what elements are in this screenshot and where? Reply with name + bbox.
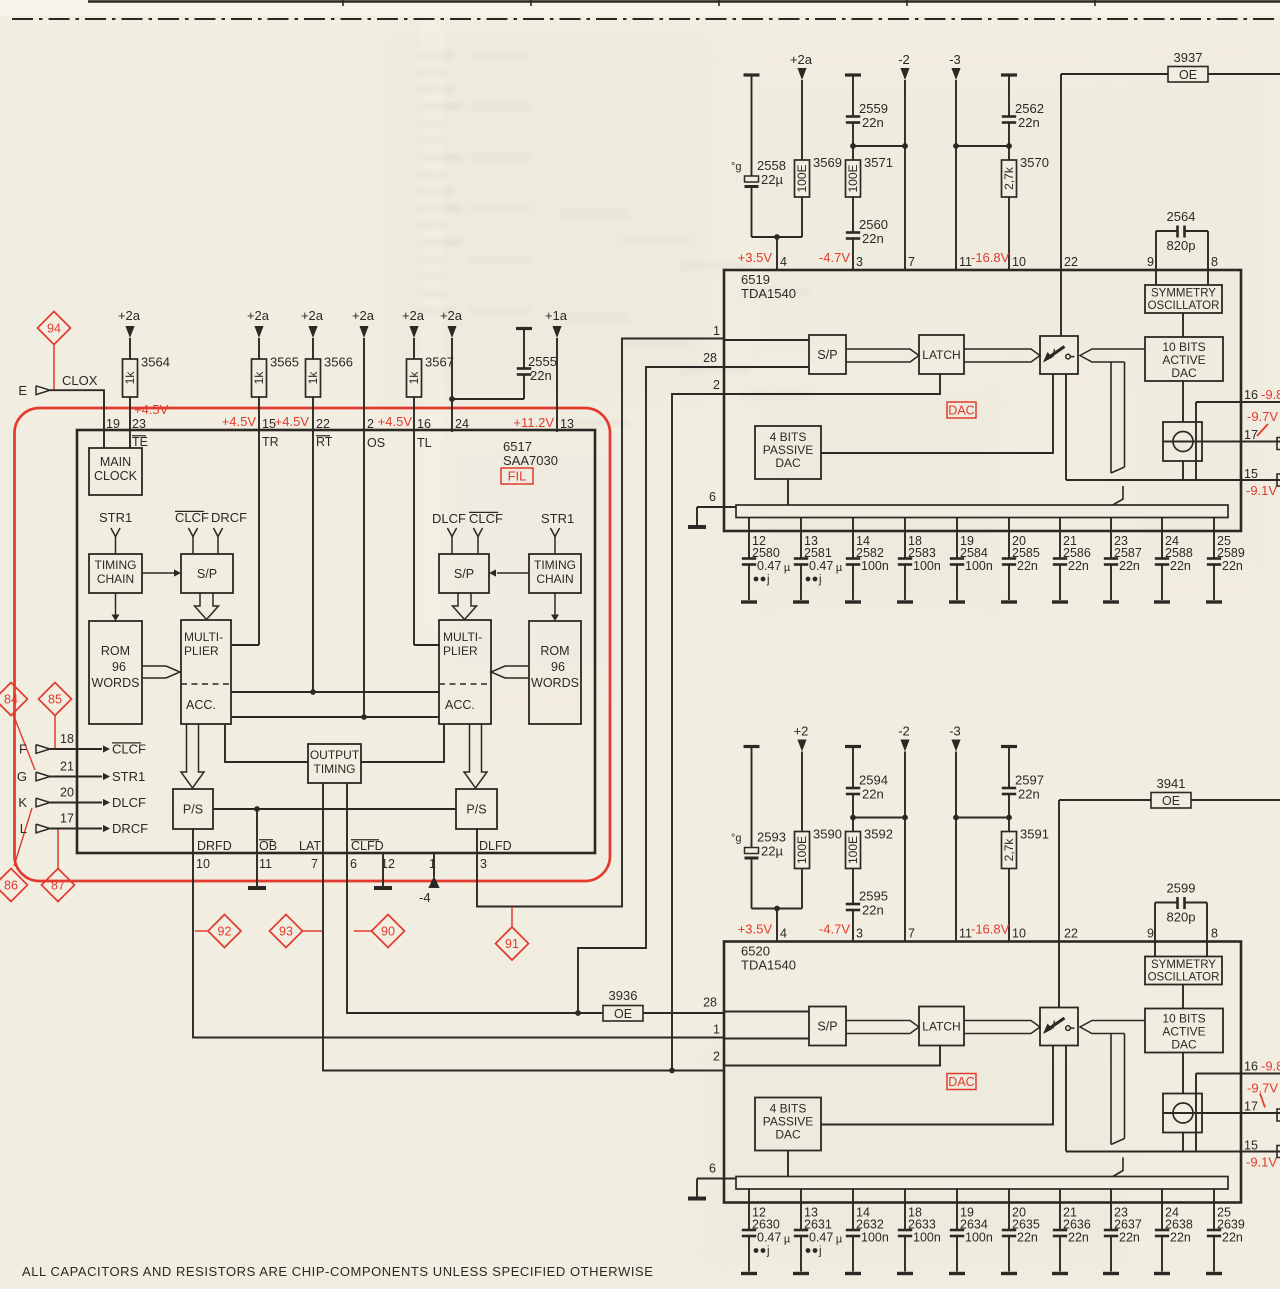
- svg-text:17: 17: [60, 812, 74, 826]
- connector stubs right edge: [1277, 1109, 1280, 1121]
- svg-text:22n: 22n: [1068, 1231, 1089, 1245]
- svg-text:DAC: DAC: [775, 456, 801, 470]
- block 4 BITS PASSIVE DAC: [755, 426, 821, 479]
- svg-text:2639: 2639: [1217, 1218, 1245, 1232]
- svg-text:-9.7V: -9.7V: [1247, 409, 1278, 424]
- svg-text:ROM: ROM: [540, 644, 569, 658]
- svg-text:3941: 3941: [1157, 776, 1186, 791]
- capacitor C2635 22n: [1008, 1189, 1010, 1230]
- svg-text:22n: 22n: [1119, 1231, 1140, 1245]
- svg-text:17: 17: [1244, 428, 1258, 442]
- bus bundle lines: [1110, 362, 1112, 473]
- block ROM 96 WORDS left: [89, 621, 142, 724]
- svg-text:P/S: P/S: [183, 803, 203, 817]
- capacitor C2589 22n: [1213, 518, 1215, 559]
- svg-text:TE: TE: [132, 435, 148, 449]
- resistor R3571 100E: [846, 160, 861, 197]
- bus arrow ROM to multiplier right: [491, 666, 529, 678]
- capacitor C2638 22n: [1161, 1189, 1163, 1230]
- svg-text:3937: 3937: [1174, 50, 1203, 65]
- wire pin a to S/P: [724, 339, 809, 341]
- svg-text:MAIN: MAIN: [100, 455, 131, 469]
- svg-text:2583: 2583: [908, 546, 936, 560]
- block TIMING CHAIN right: [529, 554, 581, 593]
- svg-text:22n: 22n: [862, 903, 884, 918]
- wire pin 22 RT: [312, 397, 314, 692]
- svg-text:j: j: [766, 574, 770, 586]
- svg-text:24: 24: [455, 417, 469, 431]
- supply +2: [797, 740, 806, 752]
- svg-text:2637: 2637: [1114, 1218, 1142, 1232]
- svg-text:22n: 22n: [530, 368, 552, 383]
- svg-text:j: j: [818, 574, 822, 586]
- svg-text:OS: OS: [367, 436, 385, 450]
- resistor R3564 1k: [129, 338, 131, 359]
- svg-text:3: 3: [480, 857, 487, 871]
- arrow timing chain to S/P: [142, 572, 174, 574]
- supply terminal 2593: [744, 745, 760, 748]
- svg-text:+2a: +2a: [440, 308, 463, 323]
- wire pin 23: [129, 397, 131, 448]
- capacitor C2637 22n: [1110, 1189, 1112, 1230]
- wire sym osc to DAC: [1182, 985, 1184, 1009]
- svg-text:100n: 100n: [913, 559, 941, 573]
- capacitor C2583 100n: [904, 518, 906, 559]
- supply terminal 2594: [845, 745, 861, 748]
- svg-text:DRCF: DRCF: [112, 821, 148, 836]
- svg-text:22n: 22n: [862, 115, 884, 130]
- wire pin 9 to sym osc: [1154, 942, 1156, 957]
- wire red stem 84: [13, 714, 35, 770]
- svg-text:21: 21: [60, 760, 74, 774]
- svg-text:22n: 22n: [1018, 787, 1040, 802]
- svg-text:CLFD: CLFD: [351, 839, 384, 853]
- capacitor C2581 0.47: [800, 518, 802, 559]
- svg-text:3566: 3566: [324, 355, 353, 370]
- svg-text:MULTI-: MULTI-: [184, 630, 223, 644]
- wire pin 15 rail: [1066, 479, 1280, 481]
- svg-text:22n: 22n: [1018, 115, 1040, 130]
- svg-text:1k: 1k: [252, 371, 266, 385]
- wire pin 13: [556, 338, 558, 432]
- svg-text:9: 9: [1147, 255, 1154, 269]
- svg-text:CHAIN: CHAIN: [536, 572, 573, 586]
- svg-text:OE: OE: [1179, 68, 1197, 82]
- connector diamond 86: [0, 869, 28, 902]
- svg-text:22µ: 22µ: [761, 844, 783, 859]
- capacitor C2630 0.47: [748, 1189, 750, 1230]
- svg-text:100E: 100E: [846, 164, 860, 192]
- svg-text:OUTPUT: OUTPUT: [310, 748, 360, 762]
- svg-text:ACTIVE: ACTIVE: [1162, 353, 1205, 367]
- svg-text:S/P: S/P: [817, 1020, 837, 1034]
- current source block: [1163, 1094, 1202, 1133]
- svg-text:2586: 2586: [1063, 546, 1091, 560]
- svg-text:2633: 2633: [908, 1218, 936, 1232]
- svg-text:2585: 2585: [1012, 546, 1040, 560]
- capacitor C2582 100n: [852, 518, 854, 559]
- switch block: [1040, 336, 1078, 374]
- capacitor C2636 22n: [1059, 1189, 1061, 1230]
- bus arrow S/P to LATCH: [846, 349, 919, 362]
- svg-text:DRFD: DRFD: [197, 839, 232, 853]
- svg-text:100E: 100E: [795, 164, 809, 192]
- wire pin a to S/P: [724, 1011, 809, 1013]
- capacitor C2562 22n: [1008, 75, 1010, 116]
- svg-text:90: 90: [381, 925, 395, 939]
- svg-text:3565: 3565: [270, 355, 299, 370]
- bus arrow DAC to switch: [1080, 1021, 1145, 1034]
- svg-text:2562: 2562: [1015, 101, 1044, 116]
- supply terminal 2562: [1001, 73, 1017, 76]
- current source block: [1163, 422, 1202, 461]
- wire pin 7: [904, 752, 906, 942]
- ground pin 12: [382, 853, 384, 886]
- svg-text:DAC: DAC: [775, 1128, 801, 1142]
- capacitor C2633 100n: [904, 1189, 906, 1230]
- bus bar: [736, 505, 1228, 518]
- wire pin 10: [1008, 197, 1010, 270]
- wire OE to 6520 pin 28: [643, 1012, 724, 1014]
- resistor R3937 0E: [1061, 73, 1168, 75]
- supply terminal 2558: [744, 73, 760, 76]
- svg-text:18: 18: [60, 732, 74, 746]
- supply +2a: [125, 326, 134, 338]
- capacitor C2580 0.47: [748, 518, 750, 559]
- svg-text:22n: 22n: [1017, 559, 1038, 573]
- svg-text:23: 23: [132, 417, 146, 431]
- block MULTIPLIER ACC right: [439, 620, 491, 724]
- bus arrow ACC to P/S right: [464, 724, 487, 788]
- capacitor C2631 0.47: [800, 1189, 802, 1230]
- svg-text:2587: 2587: [1114, 546, 1142, 560]
- svg-text:3571: 3571: [864, 155, 893, 170]
- svg-text:2595: 2595: [859, 889, 888, 904]
- connector diamond 87: [42, 869, 75, 902]
- svg-text:µ: µ: [836, 1234, 843, 1246]
- supply -3: [951, 740, 960, 752]
- top dash-dot phantom line: [12, 18, 1280, 20]
- connector diamond 90: [372, 915, 405, 948]
- arrow timing chain right to S/P: [497, 572, 529, 574]
- svg-text:j: j: [818, 1246, 822, 1258]
- svg-text:3590: 3590: [813, 827, 842, 842]
- svg-text:PLIER: PLIER: [443, 644, 478, 658]
- svg-text:+2a: +2a: [118, 308, 141, 323]
- svg-text:2594: 2594: [859, 773, 888, 788]
- svg-text:+11.2V: +11.2V: [513, 415, 554, 430]
- svg-text:6: 6: [709, 1162, 716, 1176]
- bus arrow LATCH to switch: [964, 349, 1040, 362]
- wire pin 17: [1163, 1112, 1280, 1114]
- svg-text:°g: °g: [731, 161, 742, 173]
- svg-text:15: 15: [1244, 467, 1258, 481]
- wire P/S left DRFD: [192, 829, 194, 853]
- svg-text:2632: 2632: [856, 1218, 884, 1232]
- svg-text:100n: 100n: [861, 1231, 889, 1245]
- svg-text:100n: 100n: [965, 1231, 993, 1245]
- svg-text:TL: TL: [417, 436, 432, 450]
- capacitor C2632 100n: [852, 1189, 854, 1230]
- svg-text:100n: 100n: [965, 559, 993, 573]
- resistor R3569 100E: [801, 80, 803, 160]
- svg-text:-2: -2: [898, 724, 910, 739]
- svg-text:22n: 22n: [1119, 559, 1140, 573]
- svg-text:1: 1: [429, 857, 436, 871]
- svg-text:-9.8: -9.8: [1261, 387, 1280, 402]
- svg-text:1k: 1k: [407, 371, 421, 385]
- wire pin 24: [451, 338, 453, 432]
- wire P/S right DLFD: [476, 829, 478, 853]
- svg-text:+4.5V: +4.5V: [275, 414, 310, 429]
- svg-text:19: 19: [106, 417, 120, 431]
- svg-text:+4.5V: +4.5V: [134, 402, 169, 417]
- svg-text:ACC.: ACC.: [186, 698, 216, 712]
- svg-text:2599: 2599: [1167, 881, 1196, 896]
- svg-text:DLCF: DLCF: [112, 795, 146, 810]
- svg-text:-16.8V: -16.8V: [971, 250, 1010, 265]
- svg-text:+4.5V: +4.5V: [222, 414, 257, 429]
- svg-text:96: 96: [112, 660, 126, 674]
- svg-text:8: 8: [1211, 927, 1218, 941]
- svg-text:2589: 2589: [1217, 546, 1245, 560]
- block SYMMETRY OSCILLATOR: [1145, 957, 1222, 985]
- resistor R3565 1k: [258, 338, 260, 359]
- supply +2a pin24: [447, 326, 456, 338]
- wire pin 21 STR1: [50, 776, 102, 778]
- capacitor C2593 22u: [751, 747, 753, 848]
- wire P/S interconnect OB: [213, 808, 456, 810]
- svg-text:10: 10: [1012, 255, 1026, 269]
- block S/P: [809, 335, 846, 374]
- supply -2: [900, 68, 909, 80]
- wire pin 6 ground: [697, 506, 736, 508]
- svg-text:°g: °g: [731, 833, 742, 845]
- block S/P right: [439, 554, 489, 593]
- svg-text:CLCF: CLCF: [112, 742, 146, 757]
- svg-text:PASSIVE: PASSIVE: [763, 443, 813, 457]
- capacitor C2594 22n: [852, 747, 854, 788]
- svg-text:µ: µ: [784, 562, 791, 574]
- svg-text:22: 22: [1064, 255, 1078, 269]
- wire red stem 91: [511, 907, 513, 927]
- wire pin 16 TL: [413, 397, 415, 645]
- svg-text:+2: +2: [794, 724, 809, 739]
- svg-text:2,7k: 2,7k: [1002, 838, 1016, 862]
- svg-text:SYMMETRY: SYMMETRY: [1151, 959, 1216, 971]
- svg-text:TIMING: TIMING: [95, 558, 137, 572]
- wire DAC to current source: [1182, 381, 1184, 422]
- bus arrow ACC to P/S left: [181, 724, 204, 788]
- svg-text:2582: 2582: [856, 546, 884, 560]
- switch block: [1040, 1008, 1078, 1046]
- svg-text:1: 1: [713, 324, 720, 338]
- svg-text:-3: -3: [949, 724, 961, 739]
- wire red stem 93: [303, 930, 323, 932]
- resistor R3592 100E: [846, 832, 861, 869]
- svg-text:WORDS: WORDS: [92, 676, 140, 690]
- wire pin16 to pin15 link: [1195, 402, 1197, 480]
- svg-text:22n: 22n: [862, 231, 884, 246]
- resistor R3941 0E: [1059, 799, 1151, 801]
- svg-text:6517: 6517: [503, 439, 532, 454]
- svg-text:2597: 2597: [1015, 773, 1044, 788]
- supply terminal 2559: [845, 73, 861, 76]
- svg-text:2584: 2584: [960, 546, 988, 560]
- svg-text:ROM: ROM: [101, 644, 130, 658]
- svg-text:1k: 1k: [306, 371, 320, 385]
- wire pin 20 DLCF: [50, 802, 102, 804]
- svg-text:820p: 820p: [1167, 238, 1196, 253]
- svg-text:+2a: +2a: [402, 308, 425, 323]
- wire pin 17: [1163, 441, 1280, 443]
- svg-text:100n: 100n: [913, 1231, 941, 1245]
- svg-text:TDA1540: TDA1540: [741, 286, 796, 301]
- wire pin 15 TR: [258, 397, 260, 645]
- svg-text:11: 11: [959, 255, 972, 269]
- svg-text:K: K: [18, 795, 27, 810]
- arrow timing chain right to ROM: [554, 593, 556, 615]
- svg-text:CHAIN: CHAIN: [97, 572, 134, 586]
- svg-text:-3: -3: [949, 52, 961, 67]
- capacitor C2595 22n: [852, 869, 854, 904]
- label DAC red: [947, 1074, 976, 1090]
- connector diamond 84: [0, 683, 28, 716]
- wire DRFD to 6520 pin 1: [193, 853, 724, 1038]
- svg-text:2: 2: [713, 378, 720, 392]
- svg-text:OE: OE: [614, 1007, 632, 1021]
- svg-text:3: 3: [856, 927, 863, 941]
- svg-text:7: 7: [311, 857, 318, 871]
- wire junction: [853, 817, 905, 819]
- svg-text:2: 2: [713, 1050, 720, 1064]
- capacitor C2564 820p: [1155, 231, 1157, 270]
- block OUTPUT TIMING: [308, 744, 361, 783]
- wire pin 22 to switch: [1058, 942, 1060, 1008]
- svg-text:91: 91: [505, 937, 519, 951]
- wire 4bits DAC to switch: [821, 374, 1053, 453]
- wire ACC bus line upper: [231, 691, 440, 693]
- svg-text:E: E: [18, 383, 27, 398]
- supply terminal 2597: [1001, 745, 1017, 748]
- svg-text:+3.5V: +3.5V: [738, 922, 773, 937]
- svg-text:TIMING: TIMING: [314, 762, 356, 776]
- svg-text:96: 96: [551, 660, 565, 674]
- block S/P left: [181, 554, 233, 593]
- wire junction: [956, 145, 1009, 147]
- svg-text:22n: 22n: [862, 787, 884, 802]
- connector diamond 85: [39, 683, 72, 716]
- wire pin 18 CLCF: [50, 748, 102, 750]
- svg-text:100n: 100n: [861, 559, 889, 573]
- resistor R3591 2.7k: [1002, 832, 1017, 869]
- svg-text:2555: 2555: [528, 354, 557, 369]
- block S/P: [809, 1007, 846, 1046]
- wire red stem 94: [53, 345, 55, 390]
- capacitor C2585 22n: [1008, 518, 1010, 559]
- wire current source to rail: [1182, 461, 1184, 480]
- supply -4 pin 1: [433, 853, 435, 877]
- supply +2a OS: [359, 326, 368, 338]
- svg-text:2: 2: [367, 417, 374, 431]
- svg-text:0.47: 0.47: [757, 559, 781, 573]
- svg-text:+1a: +1a: [545, 308, 568, 323]
- svg-text:2631: 2631: [804, 1218, 832, 1232]
- block LATCH: [919, 335, 964, 374]
- wire DLFD to 6519 pin 1: [477, 339, 724, 907]
- svg-text:CLCF: CLCF: [175, 510, 209, 525]
- capacitor C2586 22n: [1059, 518, 1061, 559]
- svg-text:LATCH: LATCH: [922, 1020, 960, 1034]
- svg-text:P/S: P/S: [466, 803, 486, 817]
- svg-text:10 BITS: 10 BITS: [1162, 1012, 1205, 1026]
- wire pin 16: [1196, 401, 1280, 403]
- resistor R3566 1k: [312, 338, 314, 359]
- svg-text:RT: RT: [316, 435, 333, 449]
- capacitor C2587 22n: [1110, 518, 1112, 559]
- wire junction: [853, 145, 905, 147]
- wire ACC bus line lower: [231, 716, 439, 718]
- arrow timing chain to ROM: [115, 593, 117, 615]
- wire 6519 pin 2 to LAT line: [672, 394, 724, 1071]
- svg-text:10 BITS: 10 BITS: [1162, 340, 1205, 354]
- svg-text:STR1: STR1: [112, 769, 145, 784]
- svg-text:2636: 2636: [1063, 1218, 1091, 1232]
- svg-text:3567: 3567: [425, 355, 454, 370]
- svg-text:+2a: +2a: [790, 52, 813, 67]
- svg-text:3569: 3569: [813, 155, 842, 170]
- svg-text:OE: OE: [1162, 794, 1180, 808]
- bus arrow S/P to multiplier: [195, 593, 219, 620]
- svg-text:DAC: DAC: [1171, 1038, 1197, 1052]
- supply -2: [900, 740, 909, 752]
- capacitor C2560 22n: [852, 197, 854, 232]
- svg-text:2593: 2593: [757, 830, 786, 845]
- bus arrow S/P to multiplier right: [453, 593, 477, 620]
- wire output timing to ACC right: [361, 724, 444, 762]
- wire to pin 4: [752, 236, 803, 238]
- resistor R3590 100E: [801, 752, 803, 832]
- svg-text:LAT: LAT: [299, 839, 321, 853]
- svg-text:+2a: +2a: [301, 308, 324, 323]
- svg-text:4 BITS: 4 BITS: [770, 430, 807, 444]
- wire LAT to 6520 pin 2: [323, 853, 724, 1071]
- svg-text:11: 11: [959, 927, 972, 941]
- bus arrow S/P to LATCH: [846, 1021, 919, 1034]
- wire pin 17 DRCF: [50, 828, 102, 830]
- svg-text:ALL CAPACITORS AND RESISTORS A: ALL CAPACITORS AND RESISTORS ARE CHIP-CO…: [22, 1264, 653, 1279]
- wire output timing CLFD: [346, 783, 348, 853]
- connector diamond 94: [38, 312, 71, 345]
- svg-text:92: 92: [218, 925, 232, 939]
- capacitor C2639 22n: [1213, 1189, 1215, 1230]
- svg-text:86: 86: [4, 879, 18, 893]
- wire pin b to S/P: [724, 1038, 809, 1040]
- svg-text:3564: 3564: [141, 355, 170, 370]
- svg-text:+4.5V: +4.5V: [378, 414, 413, 429]
- wire pin 11: [955, 752, 957, 942]
- IC U6520 TDA1540 outline: [724, 942, 1241, 1203]
- svg-text:OSCILLATOR: OSCILLATOR: [1148, 972, 1220, 984]
- wire pin16 to pin15 link: [1195, 1074, 1197, 1152]
- wire pin 16: [1196, 1073, 1280, 1075]
- svg-text:CLOCK: CLOCK: [94, 469, 138, 483]
- svg-text:3: 3: [856, 255, 863, 269]
- wire sym osc to DAC: [1182, 313, 1184, 337]
- svg-text:1: 1: [713, 1023, 720, 1037]
- label DAC red: [947, 402, 976, 418]
- wire DAC to current source: [1182, 1053, 1184, 1094]
